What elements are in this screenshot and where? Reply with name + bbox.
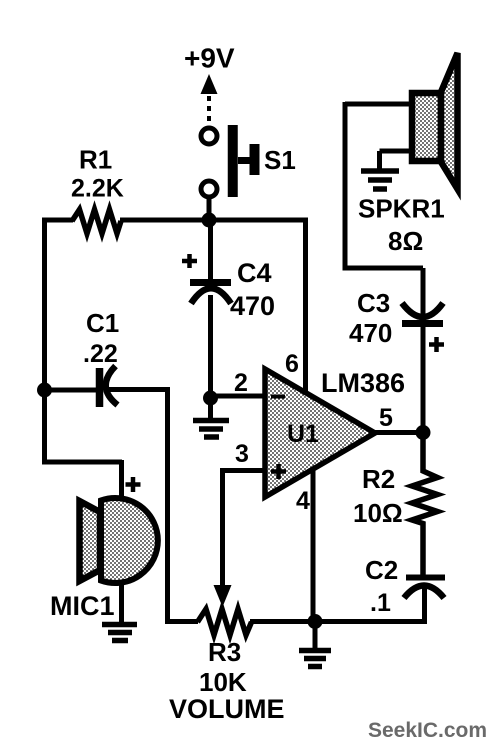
node junction C1-R1-MIC — [37, 383, 52, 398]
svg-text:10K: 10K — [199, 667, 247, 697]
C3 plus sign — [429, 337, 444, 352]
svg-text:S1: S1 — [264, 145, 296, 175]
svg-text:C3: C3 — [357, 288, 390, 318]
capacitor C2 — [404, 578, 445, 625]
svg-text:470: 470 — [349, 318, 392, 348]
wire C4 to pin2 junction — [208, 295, 213, 398]
capacitor C4 — [190, 283, 231, 304]
svg-text:2: 2 — [234, 369, 248, 397]
wire pin 3 — [222, 468, 266, 586]
C4 plus sign — [182, 254, 197, 268]
ground below mic — [102, 625, 137, 641]
svg-text:4: 4 — [296, 487, 310, 515]
ground bottom rail — [299, 622, 331, 667]
op-amp plus sign — [271, 464, 286, 479]
wire speaker top terminal to C3 — [343, 102, 424, 268]
terminal circle bottom — [201, 181, 217, 197]
wire pin 4 — [311, 468, 316, 622]
svg-text:10Ω: 10Ω — [353, 498, 403, 528]
svg-text:5: 5 — [379, 404, 393, 432]
svg-text:3: 3 — [235, 440, 249, 468]
svg-text:+9V: +9V — [184, 43, 235, 74]
svg-text:U1: U1 — [287, 420, 319, 448]
wire speaker bottom terminal — [380, 151, 413, 170]
wire pin 6 — [303, 218, 308, 392]
node junction bottom rail — [308, 614, 323, 629]
mic plus sign — [126, 477, 141, 492]
wire rail to C4 — [208, 220, 213, 279]
wire pin 5 — [373, 430, 424, 435]
wire switch to top rail — [207, 197, 212, 220]
wire pin 2 — [210, 394, 266, 399]
potentiometer wiper arrow — [214, 585, 232, 607]
node junction pin5 — [416, 425, 431, 440]
svg-text:C2: C2 — [365, 555, 398, 585]
svg-text:.1: .1 — [370, 589, 391, 617]
microphone MIC1 — [80, 498, 158, 583]
svg-text:C1: C1 — [86, 308, 119, 338]
svg-text:470: 470 — [230, 291, 275, 321]
capacitor C3 — [402, 268, 443, 432]
op-amp minus sign — [271, 395, 285, 399]
svg-text:R3: R3 — [208, 637, 241, 667]
wire C1 to bottom rail — [165, 388, 198, 622]
svg-text:SeekIC.com: SeekIC.com — [368, 719, 487, 742]
resistor R2 — [412, 432, 438, 575]
svg-text:SPKR1: SPKR1 — [358, 194, 445, 224]
svg-text:VOLUME: VOLUME — [169, 694, 285, 724]
wire left vertical — [42, 218, 122, 500]
node junction top rail — [202, 213, 217, 228]
terminal circle top — [201, 128, 217, 144]
svg-text:2.2K: 2.2K — [71, 175, 124, 203]
+9V arrow — [201, 74, 218, 124]
svg-text:8Ω: 8Ω — [388, 226, 423, 256]
resistor R3 — [198, 609, 252, 635]
op-amp U1 — [265, 369, 375, 497]
resistor R1 — [72, 210, 121, 234]
speaker SPKR1 — [412, 53, 458, 189]
ground below speaker — [361, 171, 399, 189]
capacitor C1 — [47, 366, 170, 407]
switch S1 — [233, 125, 255, 197]
wire mic to ground — [119, 583, 124, 624]
svg-text:6: 6 — [285, 350, 299, 378]
svg-text:R2: R2 — [362, 464, 395, 494]
ground below pin2 junction — [193, 398, 229, 437]
svg-text:R1: R1 — [79, 145, 112, 175]
svg-text:LM386: LM386 — [321, 368, 405, 398]
wire top rail — [42, 218, 308, 223]
svg-text:C4: C4 — [237, 258, 272, 288]
node junction pin2 — [203, 391, 218, 406]
svg-text:.22: .22 — [83, 340, 118, 368]
svg-text:MIC1: MIC1 — [50, 591, 115, 621]
wire bottom rail — [250, 619, 425, 624]
